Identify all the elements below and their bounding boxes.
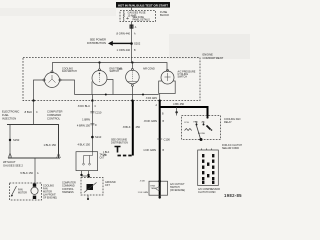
svg-text:1 BLK: 1 BLK (103, 152, 110, 154)
svg-text:COIL: COIL (184, 122, 190, 124)
svg-text:1 BLK 150: 1 BLK 150 (43, 143, 56, 147)
svg-text:4 BLK 150: 4 BLK 150 (77, 143, 90, 147)
svg-text:A/C: A/C (202, 120, 206, 123)
svg-text:COMPUTER: COMPUTER (47, 110, 62, 114)
svg-text:TEMP: TEMP (151, 188, 158, 190)
svg-text:1 BRN: 1 BRN (82, 118, 90, 122)
svg-text:HOT IN RUN, BULB TEST OR START: HOT IN RUN, BULB TEST OR START (118, 3, 168, 7)
svg-text:.8 BLK: .8 BLK (122, 125, 130, 129)
svg-text:.8 DK BLU: .8 DK BLU (77, 104, 90, 108)
svg-text:FAN SWITCH: FAN SWITCH (62, 70, 77, 73)
svg-text:1 DK GRN: 1 DK GRN (138, 192, 149, 194)
svg-text:C210: C210 (95, 111, 102, 115)
svg-text:MOTOR: MOTOR (18, 191, 27, 194)
svg-text:S150: S150 (13, 138, 20, 142)
svg-text:PANEL DETAILS: PANEL DETAILS (133, 19, 151, 22)
svg-text:.8 DK: .8 DK (140, 181, 146, 183)
svg-text:COMPARTMENT: COMPARTMENT (203, 56, 224, 60)
svg-text:HARNESS: HARNESS (62, 191, 74, 194)
svg-text:CLUTCH CONN: CLUTCH CONN (198, 191, 216, 194)
svg-text:4 BK 450: 4 BK 450 (173, 102, 185, 106)
svg-text:1 ORN 440: 1 ORN 440 (117, 48, 131, 52)
svg-text:WITHOUT: WITHOUT (3, 160, 16, 164)
svg-text:.8 ORN 440: .8 ORN 440 (116, 31, 131, 35)
svg-text:ELECTRONIC: ELECTRONIC (2, 110, 19, 114)
svg-text:1 DK GRN: 1 DK GRN (143, 148, 156, 152)
svg-text:SEE POWER: SEE POWER (90, 38, 106, 42)
svg-text:.8 DK GRN: .8 DK GRN (146, 98, 158, 100)
svg-text:COMMAND: COMMAND (47, 113, 61, 117)
svg-text:SWITCH: SWITCH (178, 76, 188, 79)
svg-text:1982-85: 1982-85 (224, 193, 242, 198)
svg-text:DISTRIBUTION: DISTRIBUTION (87, 41, 106, 45)
svg-text:SEE AIR COND: SEE AIR COND (222, 147, 239, 150)
svg-text:FUEL: FUEL (2, 113, 9, 117)
svg-text:.5 BLK 150: .5 BLK 150 (20, 171, 34, 175)
svg-text:AIR COND: AIR COND (143, 68, 155, 71)
svg-text:S210: S210 (95, 135, 102, 139)
svg-text:450: 450 (136, 125, 141, 129)
svg-text:BLOCK: BLOCK (160, 13, 169, 17)
svg-text:RELAY: RELAY (224, 121, 232, 124)
svg-text:.8 BLK: .8 BLK (24, 110, 32, 114)
svg-text:DISTRIBUTION: DISTRIBUTION (111, 141, 128, 144)
svg-text:FAN: FAN (194, 120, 199, 123)
svg-text:C100: C100 (164, 137, 171, 141)
svg-text:CONTROL: CONTROL (47, 117, 61, 121)
svg-text:S202: S202 (134, 42, 141, 46)
svg-text:4 BRN 150: 4 BRN 150 (77, 123, 91, 127)
svg-text:.8 DK GRN: .8 DK GRN (144, 119, 157, 123)
svg-text:GAUGES SEE 2: GAUGES SEE 2 (3, 163, 23, 167)
svg-text:DIODE: DIODE (198, 133, 205, 135)
svg-text:CKT: CKT (105, 184, 110, 187)
svg-text:(ON ENGINE): (ON ENGINE) (170, 189, 185, 192)
svg-text:OF ENGINE): OF ENGINE) (43, 197, 57, 200)
svg-text:INJECTION: INJECTION (2, 117, 16, 121)
svg-text:A/C: A/C (119, 68, 123, 71)
